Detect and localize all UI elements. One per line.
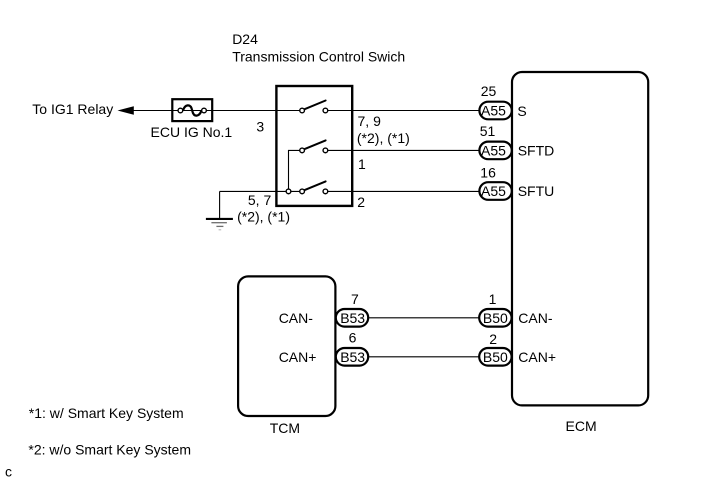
svg-text:2: 2 <box>357 194 365 210</box>
svg-text:7, 9: 7, 9 <box>358 113 382 129</box>
svg-text:B53: B53 <box>340 349 365 365</box>
switch SW1 (row S) <box>300 101 328 113</box>
wire: switch box to connector A55 pin 51 (row SFTD) <box>325 149 479 151</box>
svg-text:B50: B50 <box>483 310 508 326</box>
wire: switch box to connector A55 pin 25 (row S) <box>325 110 479 112</box>
svg-text:To IG1 Relay: To IG1 Relay <box>32 101 113 117</box>
svg-text:TCM: TCM <box>270 420 300 436</box>
svg-text:6: 6 <box>349 330 357 346</box>
switch SW2 (row SFTD) <box>300 140 328 152</box>
svg-text:B50: B50 <box>483 349 508 365</box>
svg-text:CAN+: CAN+ <box>518 349 556 365</box>
ECM box <box>512 72 648 405</box>
svg-text:25: 25 <box>481 83 497 99</box>
svg-text:(*2), (*1): (*2), (*1) <box>237 208 290 224</box>
connector B53 pin 7 <box>336 291 368 326</box>
svg-text:B53: B53 <box>340 310 365 326</box>
arrowhead to IG1 Relay <box>118 106 134 114</box>
connector B50 pin 2 <box>479 331 511 366</box>
connector B50 pin 1 <box>479 291 511 327</box>
svg-text:*2: w/o Smart Key System: *2: w/o Smart Key System <box>28 441 191 457</box>
wire: switch box to connector A55 pin 16 (row SFTU) <box>325 190 479 192</box>
svg-text:SFTU: SFTU <box>518 183 555 199</box>
svg-text:3: 3 <box>256 118 264 134</box>
fuse ECU IG No.1 <box>172 99 212 121</box>
svg-text:SFTD: SFTD <box>518 143 555 159</box>
svg-text:7: 7 <box>351 291 359 307</box>
svg-text:51: 51 <box>480 123 496 139</box>
switch box D24 <box>276 86 352 206</box>
svg-text:CAN-: CAN- <box>279 310 314 326</box>
svg-text:Transmission Control Swich: Transmission Control Swich <box>232 49 405 65</box>
svg-text:ECM: ECM <box>566 418 597 434</box>
TCM box <box>238 276 335 416</box>
svg-text:A55: A55 <box>481 103 506 119</box>
svg-text:2: 2 <box>489 331 497 347</box>
svg-text:D24: D24 <box>232 31 258 47</box>
svg-text:A55: A55 <box>481 143 506 159</box>
svg-text:S: S <box>517 103 526 119</box>
wire: B53 pin 7 to B50 pin 1 (CAN-) <box>368 317 479 319</box>
connector A55 pin 25 <box>479 83 511 119</box>
svg-text:*1: w/ Smart Key System: *1: w/ Smart Key System <box>29 405 184 421</box>
wire: arrow to switch box (row S) <box>134 110 303 112</box>
svg-text:ECU IG No.1: ECU IG No.1 <box>151 124 233 140</box>
connector A55 pin 16 <box>479 164 511 199</box>
ground wire vertical <box>219 191 221 218</box>
svg-text:5, 7: 5, 7 <box>248 192 272 208</box>
switch SW3 (row SFTU) <box>300 181 328 193</box>
junction node in switch box <box>286 189 291 194</box>
wire: ground to switch box (row SFTU) <box>220 190 303 192</box>
svg-text:16: 16 <box>480 164 496 180</box>
wire: B53 pin 6 to B50 pin 2 (CAN+) <box>368 356 479 358</box>
svg-text:CAN+: CAN+ <box>279 349 317 365</box>
wire: middle switch to internal junction <box>289 150 303 191</box>
svg-text:1: 1 <box>358 156 366 172</box>
svg-text:CAN-: CAN- <box>518 310 553 326</box>
svg-text:A55: A55 <box>481 183 506 199</box>
svg-text:c: c <box>5 464 12 480</box>
connector A55 pin 51 <box>479 123 511 159</box>
svg-text:1: 1 <box>489 291 497 307</box>
connector B53 pin 6 <box>336 330 368 366</box>
svg-text:(*2), (*1): (*2), (*1) <box>357 130 410 146</box>
ground symbol <box>206 219 233 230</box>
